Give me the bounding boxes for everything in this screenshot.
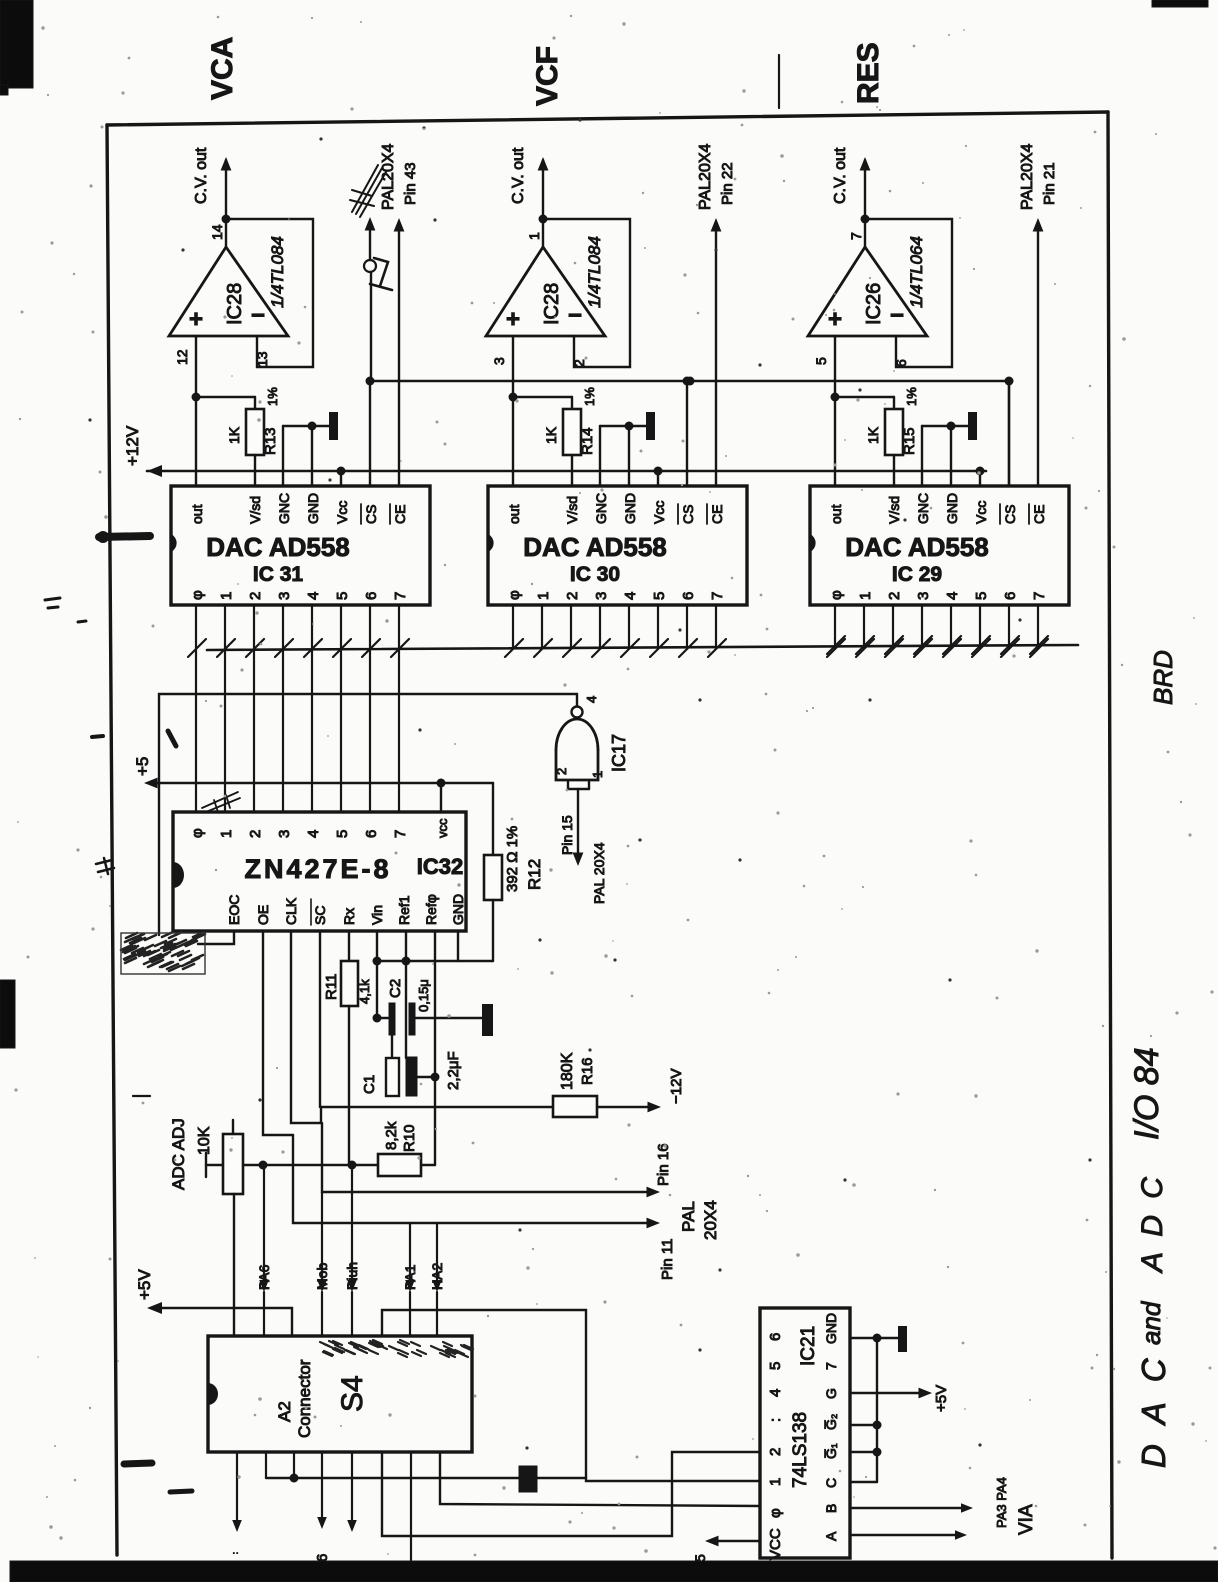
wire IC 29 pin7 to data bus xyxy=(1037,605,1039,648)
svg-text:Mob: Mob xyxy=(314,1263,330,1290)
svg-text:C.V. out: C.V. out xyxy=(510,147,527,204)
wire PA6 into S4 xyxy=(263,1165,265,1281)
svg-text:out: out xyxy=(189,504,205,524)
arrowhead xyxy=(573,853,584,867)
svg-text:Rx: Rx xyxy=(341,908,357,925)
DAC AD558 IC 30 xyxy=(488,486,747,605)
svg-text:CE: CE xyxy=(392,505,408,524)
arrowhead xyxy=(538,157,549,171)
svg-text:out: out xyxy=(506,504,522,524)
svg-text:GND: GND xyxy=(450,894,466,925)
svg-text:DAC AD558: DAC AD558 xyxy=(523,532,667,562)
wire IC 29 CS to CS bus xyxy=(1008,381,1010,486)
wire IC 31 Vcc to +12V rail xyxy=(340,471,342,486)
ground symbol xyxy=(646,412,655,440)
svg-text:VCC: VCC xyxy=(767,1528,784,1560)
wire op-amp output / C.V. out IC 30 xyxy=(542,160,544,247)
junction xyxy=(437,779,446,788)
junction xyxy=(1005,377,1014,386)
svg-text:PA3 PA4: PA3 PA4 xyxy=(994,1477,1009,1528)
wire IC 29 pin4 to data bus xyxy=(950,605,952,648)
ADC data line D1 xyxy=(224,648,226,812)
svg-text:PAL: PAL xyxy=(679,1201,698,1232)
wire NAND inputs to PAL pin 15 xyxy=(577,789,579,857)
+5 supply wire xyxy=(152,782,493,784)
bus slash IC29 xyxy=(972,636,990,654)
svg-text:6: 6 xyxy=(767,1333,784,1341)
svg-text::: : xyxy=(767,1418,784,1422)
svg-text:R13: R13 xyxy=(262,427,279,455)
svg-text:R11: R11 xyxy=(323,974,340,1000)
svg-text:R16: R16 xyxy=(579,1057,596,1085)
svg-text:C1: C1 xyxy=(361,1075,378,1094)
svg-text:5: 5 xyxy=(813,357,829,365)
bus slash xyxy=(708,639,726,657)
wire IC 29 pin3 to data bus xyxy=(921,605,923,648)
svg-text:2: 2 xyxy=(767,1448,784,1456)
svg-text:RES: RES xyxy=(852,42,885,104)
tick mark above frame xyxy=(778,55,780,108)
wire VCC arrow xyxy=(712,1540,760,1542)
wire IC 30 pin1 to data bus xyxy=(541,605,543,648)
svg-text:DAC AD558: DAC AD558 xyxy=(845,532,989,562)
svg-text:OE: OE xyxy=(255,905,271,925)
wire S4 pin to 74LS138 pin phi xyxy=(440,1452,760,1506)
wire IC 31 pin1 to data bus xyxy=(224,605,226,648)
bus slash IC29 xyxy=(943,636,961,654)
svg-text:Pin 22: Pin 22 xyxy=(719,162,736,205)
wire IC 30 Vcc to +12V rail xyxy=(657,471,659,486)
junction xyxy=(831,393,840,402)
svg-text:PAL20X4: PAL20X4 xyxy=(697,143,714,210)
svg-text:10K: 10K xyxy=(196,1126,213,1155)
svg-text:+12V: +12V xyxy=(123,425,142,466)
svg-text:DAC AD558: DAC AD558 xyxy=(206,532,350,562)
+12V rail xyxy=(147,470,986,473)
svg-text:7: 7 xyxy=(709,592,726,600)
junction xyxy=(366,377,375,386)
ADC data line D3 xyxy=(282,648,284,812)
svg-text:R12: R12 xyxy=(525,859,544,890)
ground symbol xyxy=(968,412,977,440)
svg-text:G̅₂: G̅₂ xyxy=(823,1414,839,1430)
junction xyxy=(259,1161,268,1170)
bus slash xyxy=(943,639,961,657)
svg-text:−: − xyxy=(890,302,904,329)
wire S4 pin arrow 6 xyxy=(321,1452,323,1518)
svg-text:Ref1: Ref1 xyxy=(396,895,412,925)
bus slash xyxy=(621,639,639,657)
svg-text:1/4TL084: 1/4TL084 xyxy=(585,236,604,308)
junction xyxy=(373,957,382,966)
svg-text:7: 7 xyxy=(1031,592,1048,600)
svg-text:CS: CS xyxy=(1002,505,1018,524)
wire IC 31 pin6 to data bus xyxy=(369,605,371,648)
svg-text:CLK: CLK xyxy=(283,897,299,925)
svg-text:1%: 1% xyxy=(582,387,597,406)
scribble (crossed out label) xyxy=(350,165,386,217)
ADC data line D2 xyxy=(253,648,255,812)
svg-text:and: and xyxy=(1136,1300,1166,1345)
svg-text:2: 2 xyxy=(886,592,903,600)
svg-text:+: + xyxy=(189,306,203,333)
junction xyxy=(873,1421,882,1430)
wire OE down xyxy=(263,931,293,1135)
wire G to +5V xyxy=(850,1392,925,1394)
wire A to VIA xyxy=(850,1534,960,1536)
junction xyxy=(625,422,634,431)
bus slash IC29 xyxy=(1030,636,1048,654)
wire IC 30 OUT to op-amp + xyxy=(512,336,514,486)
wire PA1 into S4 xyxy=(409,1223,411,1281)
bus slash xyxy=(505,639,523,657)
arrowhead xyxy=(317,1517,327,1529)
svg-text:GND: GND xyxy=(622,493,638,524)
wire IC 31 pin2 to data bus xyxy=(253,605,255,648)
svg-text:GND: GND xyxy=(823,1313,839,1344)
arrowhead xyxy=(647,1218,661,1229)
pot wiper bar xyxy=(205,1153,207,1177)
wire IC 30 GND pins to ground xyxy=(599,426,601,486)
svg-text:Vcc: Vcc xyxy=(973,501,989,524)
svg-text:φ: φ xyxy=(506,590,523,600)
svg-text:PAL 20X4: PAL 20X4 xyxy=(591,842,607,904)
svg-text:6: 6 xyxy=(363,592,380,600)
svg-text:out: out xyxy=(828,504,844,524)
svg-text:IC26: IC26 xyxy=(863,283,885,325)
wire IC 31 pin5 to data bus xyxy=(340,605,342,648)
arrowhead xyxy=(259,1280,269,1292)
svg-text:R10: R10 xyxy=(401,1124,418,1152)
svg-text:R15: R15 xyxy=(901,427,918,455)
resistor R16 180K xyxy=(320,1106,553,1108)
schematic border frame xyxy=(107,112,1108,125)
bus slash IC29 xyxy=(1001,636,1019,654)
wire IC 31 pin0 to data bus xyxy=(195,605,197,648)
svg-text:3: 3 xyxy=(276,830,293,838)
scan artifact: bottom black bar xyxy=(10,1561,1218,1582)
svg-text:5: 5 xyxy=(334,592,351,600)
+5V wire to S4 xyxy=(152,1308,292,1336)
small scribble mark xyxy=(202,792,240,812)
ground symbol xyxy=(329,412,338,440)
svg-text:5: 5 xyxy=(767,1362,784,1370)
svg-text:2: 2 xyxy=(247,830,264,838)
artifact small marks xyxy=(45,598,60,608)
svg-text:2: 2 xyxy=(554,768,569,775)
op-amp IC26 1/4 TL084 xyxy=(808,247,927,336)
wire S4 pin to arrow xyxy=(236,1452,238,1521)
svg-text:12: 12 xyxy=(174,349,190,365)
svg-text:7: 7 xyxy=(392,592,409,600)
wire IC 29 pin2 to data bus xyxy=(892,605,894,648)
svg-text:A: A xyxy=(823,1531,839,1541)
wire EOC/NAND net xyxy=(159,694,577,935)
svg-text:1%: 1% xyxy=(904,387,919,406)
junction xyxy=(431,1073,440,1082)
wire S4 top pin via jog to 74LS138 pin 1 xyxy=(382,1310,760,1481)
svg-text:SC: SC xyxy=(312,906,328,925)
resistor R15 1K xyxy=(835,396,894,398)
wire IC 29 Vcc to +12V rail xyxy=(979,471,981,486)
wire IC31 CS up with crossed-out mark xyxy=(370,272,372,381)
wire Mob into S4 xyxy=(321,1192,323,1281)
junction xyxy=(509,393,518,402)
svg-text:7: 7 xyxy=(392,830,409,838)
bus slash xyxy=(217,639,235,657)
svg-text:392 Ω 1%: 392 Ω 1% xyxy=(504,826,521,892)
wire S4 pin arrow xyxy=(351,1452,353,1521)
ADC ZN427E-8 IC32 xyxy=(173,812,466,931)
arrowhead xyxy=(221,157,232,171)
svg-text:1: 1 xyxy=(767,1478,784,1486)
svg-text:Connector: Connector xyxy=(295,1359,314,1438)
small noise specks xyxy=(422,126,425,129)
resistor R12 392 Ohm 1% xyxy=(492,783,494,855)
svg-text:VIA: VIA xyxy=(1016,1504,1037,1535)
data bus line xyxy=(207,645,1078,650)
svg-text:C: C xyxy=(823,1478,839,1488)
ground symbol xyxy=(898,1326,907,1352)
wire IC 31 CS to CS bus xyxy=(369,381,371,486)
svg-text:IC28: IC28 xyxy=(541,283,563,325)
arrowhead xyxy=(405,1280,415,1292)
wire IC 29 pin5 to data bus xyxy=(979,605,981,648)
svg-text:Vcc: Vcc xyxy=(334,501,350,524)
junction xyxy=(290,1474,299,1483)
svg-text:20X4: 20X4 xyxy=(701,1200,720,1240)
arrowhead xyxy=(365,217,376,231)
ground symbol xyxy=(482,1004,493,1036)
arrowhead xyxy=(347,1520,357,1532)
wire C1 to Ref0 line xyxy=(417,1076,435,1078)
svg-text:1: 1 xyxy=(218,830,235,838)
bus slash xyxy=(885,639,903,657)
bus slash IC29 xyxy=(827,636,845,654)
svg-text:Pin 16: Pin 16 xyxy=(655,1143,672,1186)
bus slash xyxy=(563,639,581,657)
wire ZN427 Vcc to +5 xyxy=(440,783,442,812)
svg-text:3: 3 xyxy=(915,592,932,600)
svg-text:PAL20X4: PAL20X4 xyxy=(1019,143,1036,210)
NAND gate IC17 xyxy=(576,694,578,706)
wire IC 29 OUT to op-amp + xyxy=(834,336,836,486)
arrowhead xyxy=(432,1280,442,1292)
arrowhead xyxy=(860,157,871,171)
svg-text:BRD: BRD xyxy=(1148,650,1178,705)
svg-text:−12V: −12V xyxy=(668,1069,685,1104)
svg-text:EOC: EOC xyxy=(226,895,242,925)
svg-text:CE: CE xyxy=(709,505,725,524)
svg-text:GNC: GNC xyxy=(593,493,609,524)
svg-text:G̅₁: G̅₁ xyxy=(823,1443,839,1459)
svg-text:φ: φ xyxy=(828,590,845,600)
svg-text:1%: 1% xyxy=(265,387,280,406)
svg-text:180K: 180K xyxy=(559,1052,576,1090)
scribble blob artifact xyxy=(121,932,205,971)
svg-text:V/sd: V/sd xyxy=(886,496,902,524)
junction xyxy=(976,467,985,476)
svg-text:3: 3 xyxy=(276,592,293,600)
wire IC 31 GND pins to ground xyxy=(282,426,284,486)
svg-text:IC17: IC17 xyxy=(609,734,629,772)
scan artifact: top right dash xyxy=(1152,0,1208,7)
bus slash xyxy=(188,639,206,657)
junction xyxy=(873,1448,882,1457)
svg-text:GNC: GNC xyxy=(276,493,292,524)
wire Ref0 down to R10 node xyxy=(434,931,436,1165)
junction xyxy=(373,1014,382,1023)
svg-text:PA1: PA1 xyxy=(402,1264,418,1290)
feedback wire IC28 xyxy=(543,219,630,367)
svg-text:PA6: PA6 xyxy=(256,1264,272,1290)
decoder 74LS138 IC21 xyxy=(760,1308,850,1558)
wire Ref/Vin node xyxy=(377,960,493,962)
svg-text:D A C: D A C xyxy=(1135,1352,1172,1468)
svg-text:1: 1 xyxy=(535,592,552,600)
wire IC 30 pin4 to data bus xyxy=(628,605,630,648)
svg-text:6: 6 xyxy=(680,592,697,600)
junction xyxy=(873,1334,882,1343)
wire B to VIA xyxy=(850,1507,966,1509)
svg-text:4,1k: 4,1k xyxy=(357,979,372,1004)
bus slash IC29 xyxy=(856,636,874,654)
wire Ref1 xyxy=(405,931,407,1058)
svg-text:Refφ: Refφ xyxy=(423,894,439,925)
ADC data line D4 xyxy=(311,648,313,812)
svg-text:A D C: A D C xyxy=(1136,1173,1169,1274)
svg-text:CS: CS xyxy=(680,505,696,524)
svg-text:G: G xyxy=(823,1388,839,1399)
svg-text:VCA: VCA xyxy=(206,37,239,100)
svg-text:ADC ADJ: ADC ADJ xyxy=(169,1118,188,1190)
svg-text:Vin: Vin xyxy=(369,905,385,925)
bus slash xyxy=(650,639,668,657)
arrowhead xyxy=(1033,218,1044,232)
svg-text:1/4TL064: 1/4TL064 xyxy=(907,236,926,308)
wire to PAL pin16 xyxy=(322,1123,652,1192)
resistor R11 4,1k xyxy=(348,931,350,961)
svg-text:1/4TL084: 1/4TL084 xyxy=(268,236,287,308)
arrowhead xyxy=(919,1388,933,1399)
svg-text:V/sd: V/sd xyxy=(564,496,580,524)
svg-text:4: 4 xyxy=(305,592,322,600)
bus slash xyxy=(856,639,874,657)
bus slash xyxy=(362,639,380,657)
arrowhead xyxy=(648,1102,662,1113)
svg-text:B: B xyxy=(823,1504,839,1513)
resistor R10 8,2k xyxy=(378,1154,421,1176)
arrowhead xyxy=(955,1530,967,1540)
junction xyxy=(683,377,692,386)
svg-text:C.V. out: C.V. out xyxy=(832,147,849,204)
svg-text:7: 7 xyxy=(823,1362,839,1370)
svg-text:1: 1 xyxy=(526,232,542,240)
svg-text:+: + xyxy=(506,306,520,333)
svg-text:1: 1 xyxy=(857,592,874,600)
bus slash xyxy=(246,639,264,657)
svg-text:Pin 15: Pin 15 xyxy=(559,815,575,855)
wire SC down to R16 node xyxy=(319,931,321,1107)
svg-text:7: 7 xyxy=(848,232,864,240)
ADC data line D5 xyxy=(340,648,342,812)
bus slash xyxy=(679,639,697,657)
wire S4 pins to 74LS138 pin 1 xyxy=(265,1452,267,1478)
svg-text:4: 4 xyxy=(622,592,639,600)
bus slash xyxy=(827,639,845,657)
wire S4 pin to 74LS138 pin 2 xyxy=(382,1452,760,1536)
arrowhead xyxy=(394,218,405,232)
svg-text:I/O 84: I/O 84 xyxy=(1128,1047,1166,1140)
svg-text:−: − xyxy=(251,302,265,329)
wire IC 30 pin5 to data bus xyxy=(657,605,659,648)
svg-text:+5V: +5V xyxy=(933,1385,950,1412)
bus slash xyxy=(592,639,610,657)
wire EOC to scribble xyxy=(198,931,234,944)
junction xyxy=(192,393,201,402)
wire IC 30 pin6 to data bus xyxy=(686,605,688,648)
svg-text:1K: 1K xyxy=(226,426,242,444)
wire Vin xyxy=(376,931,378,1018)
bus slash xyxy=(275,639,293,657)
svg-text:HA2: HA2 xyxy=(429,1263,445,1290)
svg-text:A2: A2 xyxy=(275,1401,294,1422)
svg-text:C2: C2 xyxy=(387,979,404,998)
wire IC 31 pin4 to data bus xyxy=(311,605,313,648)
scan artifact: left edge bar xyxy=(0,980,15,1048)
wire IC 30 CE to PAL20X4 Pin 22 xyxy=(715,224,717,486)
CS bus wire xyxy=(371,381,1009,486)
wire IC 29 pin6 to data bus xyxy=(1008,605,1010,648)
wire C2 to C1 xyxy=(391,1035,393,1058)
bus slash xyxy=(972,639,990,657)
svg-text:φ: φ xyxy=(767,1508,784,1518)
capacitor C2 0,15 xyxy=(377,1017,389,1019)
wire HA2 into S4 xyxy=(436,1223,438,1281)
svg-text:74LS138: 74LS138 xyxy=(790,1412,811,1488)
DAC AD558 IC 31 xyxy=(171,486,430,605)
svg-text:C.V. out: C.V. out xyxy=(193,147,210,204)
bus slash xyxy=(534,639,552,657)
svg-text:vcc: vcc xyxy=(435,818,450,838)
wire G1 G2 C tie xyxy=(876,1338,878,1482)
svg-text:IC32: IC32 xyxy=(417,854,463,879)
wire Piuh into S4 xyxy=(351,1165,353,1281)
wire IC 30 pin2 to data bus xyxy=(570,605,572,648)
svg-text:Piuh: Piuh xyxy=(344,1262,360,1290)
junction xyxy=(686,377,695,386)
svg-text:IC 31: IC 31 xyxy=(253,563,304,586)
arrowhead xyxy=(647,1187,661,1198)
svg-text:R14: R14 xyxy=(579,427,596,455)
scan artifact: top-left black corner xyxy=(0,0,33,88)
svg-text:CE: CE xyxy=(1031,505,1047,524)
svg-text:1K: 1K xyxy=(865,426,881,444)
junction xyxy=(654,467,663,476)
junction xyxy=(308,422,317,431)
junction xyxy=(539,215,548,224)
black blob artifact xyxy=(519,1466,537,1492)
DAC AD558 IC 29 xyxy=(810,486,1069,605)
svg-text:8,2k: 8,2k xyxy=(383,1121,400,1150)
bus slash IC29 xyxy=(885,636,903,654)
wire IC 29 GND pins to ground xyxy=(921,426,923,486)
svg-text:5: 5 xyxy=(334,830,351,838)
bus slash xyxy=(914,639,932,657)
arrowhead xyxy=(705,1536,719,1547)
svg-text:φ: φ xyxy=(189,590,206,600)
wire pot bottom to S4 xyxy=(233,1194,235,1336)
